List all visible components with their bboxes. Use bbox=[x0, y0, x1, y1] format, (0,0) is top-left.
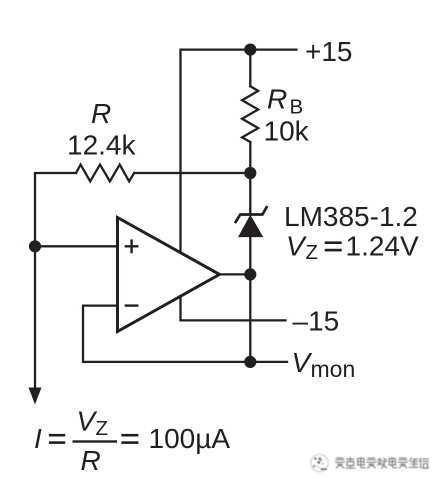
wire noninverting input bbox=[35, 245, 118, 247]
op-amp minus input symbol bbox=[125, 304, 139, 306]
svg-text:–15: –15 bbox=[293, 306, 340, 337]
svg-text:Z: Z bbox=[306, 241, 319, 264]
node dot top at RB / +15 bbox=[244, 44, 256, 56]
svg-text:100µA: 100µA bbox=[149, 423, 231, 454]
svg-text:12.4k: 12.4k bbox=[67, 130, 136, 161]
wire zener bottom lead bbox=[249, 237, 251, 275]
node dot at Vmon bbox=[244, 356, 256, 368]
wire op-amp output to node and down to Vmon bbox=[220, 274, 251, 362]
op-amp plus input symbol bbox=[125, 239, 139, 305]
node dot Z at RB bottom / R / zener bbox=[244, 167, 256, 179]
zener diode LM385-1.2 bbox=[236, 207, 267, 222]
svg-text:1.24V: 1.24V bbox=[346, 231, 419, 262]
node dot at left / + input bbox=[29, 240, 41, 252]
svg-text:I: I bbox=[34, 423, 42, 454]
svg-text:V: V bbox=[286, 231, 307, 262]
svg-text:V: V bbox=[292, 347, 313, 378]
wire R left lead and left drop bbox=[35, 173, 76, 388]
svg-text:V: V bbox=[77, 406, 98, 437]
watermark logo bbox=[311, 454, 328, 471]
wire RB top lead bbox=[249, 50, 251, 87]
wire top +15 rail bbox=[181, 50, 297, 252]
svg-text:+15: +15 bbox=[305, 36, 353, 67]
wire inverting input feedback to Vmon line bbox=[83, 306, 287, 362]
svg-text:R: R bbox=[81, 445, 101, 476]
svg-text:R: R bbox=[267, 84, 287, 115]
watermark text (pseudo hanzi) bbox=[335, 458, 428, 468]
svg-text:10k: 10k bbox=[264, 116, 310, 147]
svg-text:R: R bbox=[91, 98, 111, 129]
resistor RB 10k bbox=[242, 86, 258, 142]
node dot at op-amp output bbox=[244, 268, 256, 280]
arrow current I out bbox=[29, 388, 42, 405]
wire RB bottom lead bbox=[249, 142, 251, 173]
wire zener top lead bbox=[249, 173, 251, 215]
fraction bar bbox=[73, 440, 118, 442]
wire R right lead to node Z bbox=[134, 172, 250, 174]
op-amp U1 bbox=[118, 218, 220, 332]
wire V- supply to -15 bbox=[181, 298, 286, 321]
svg-text:LM385-1.2: LM385-1.2 bbox=[284, 201, 418, 232]
resistor R 12.4k bbox=[76, 165, 134, 182]
svg-text:Z: Z bbox=[96, 417, 109, 440]
svg-text:mon: mon bbox=[311, 356, 356, 382]
